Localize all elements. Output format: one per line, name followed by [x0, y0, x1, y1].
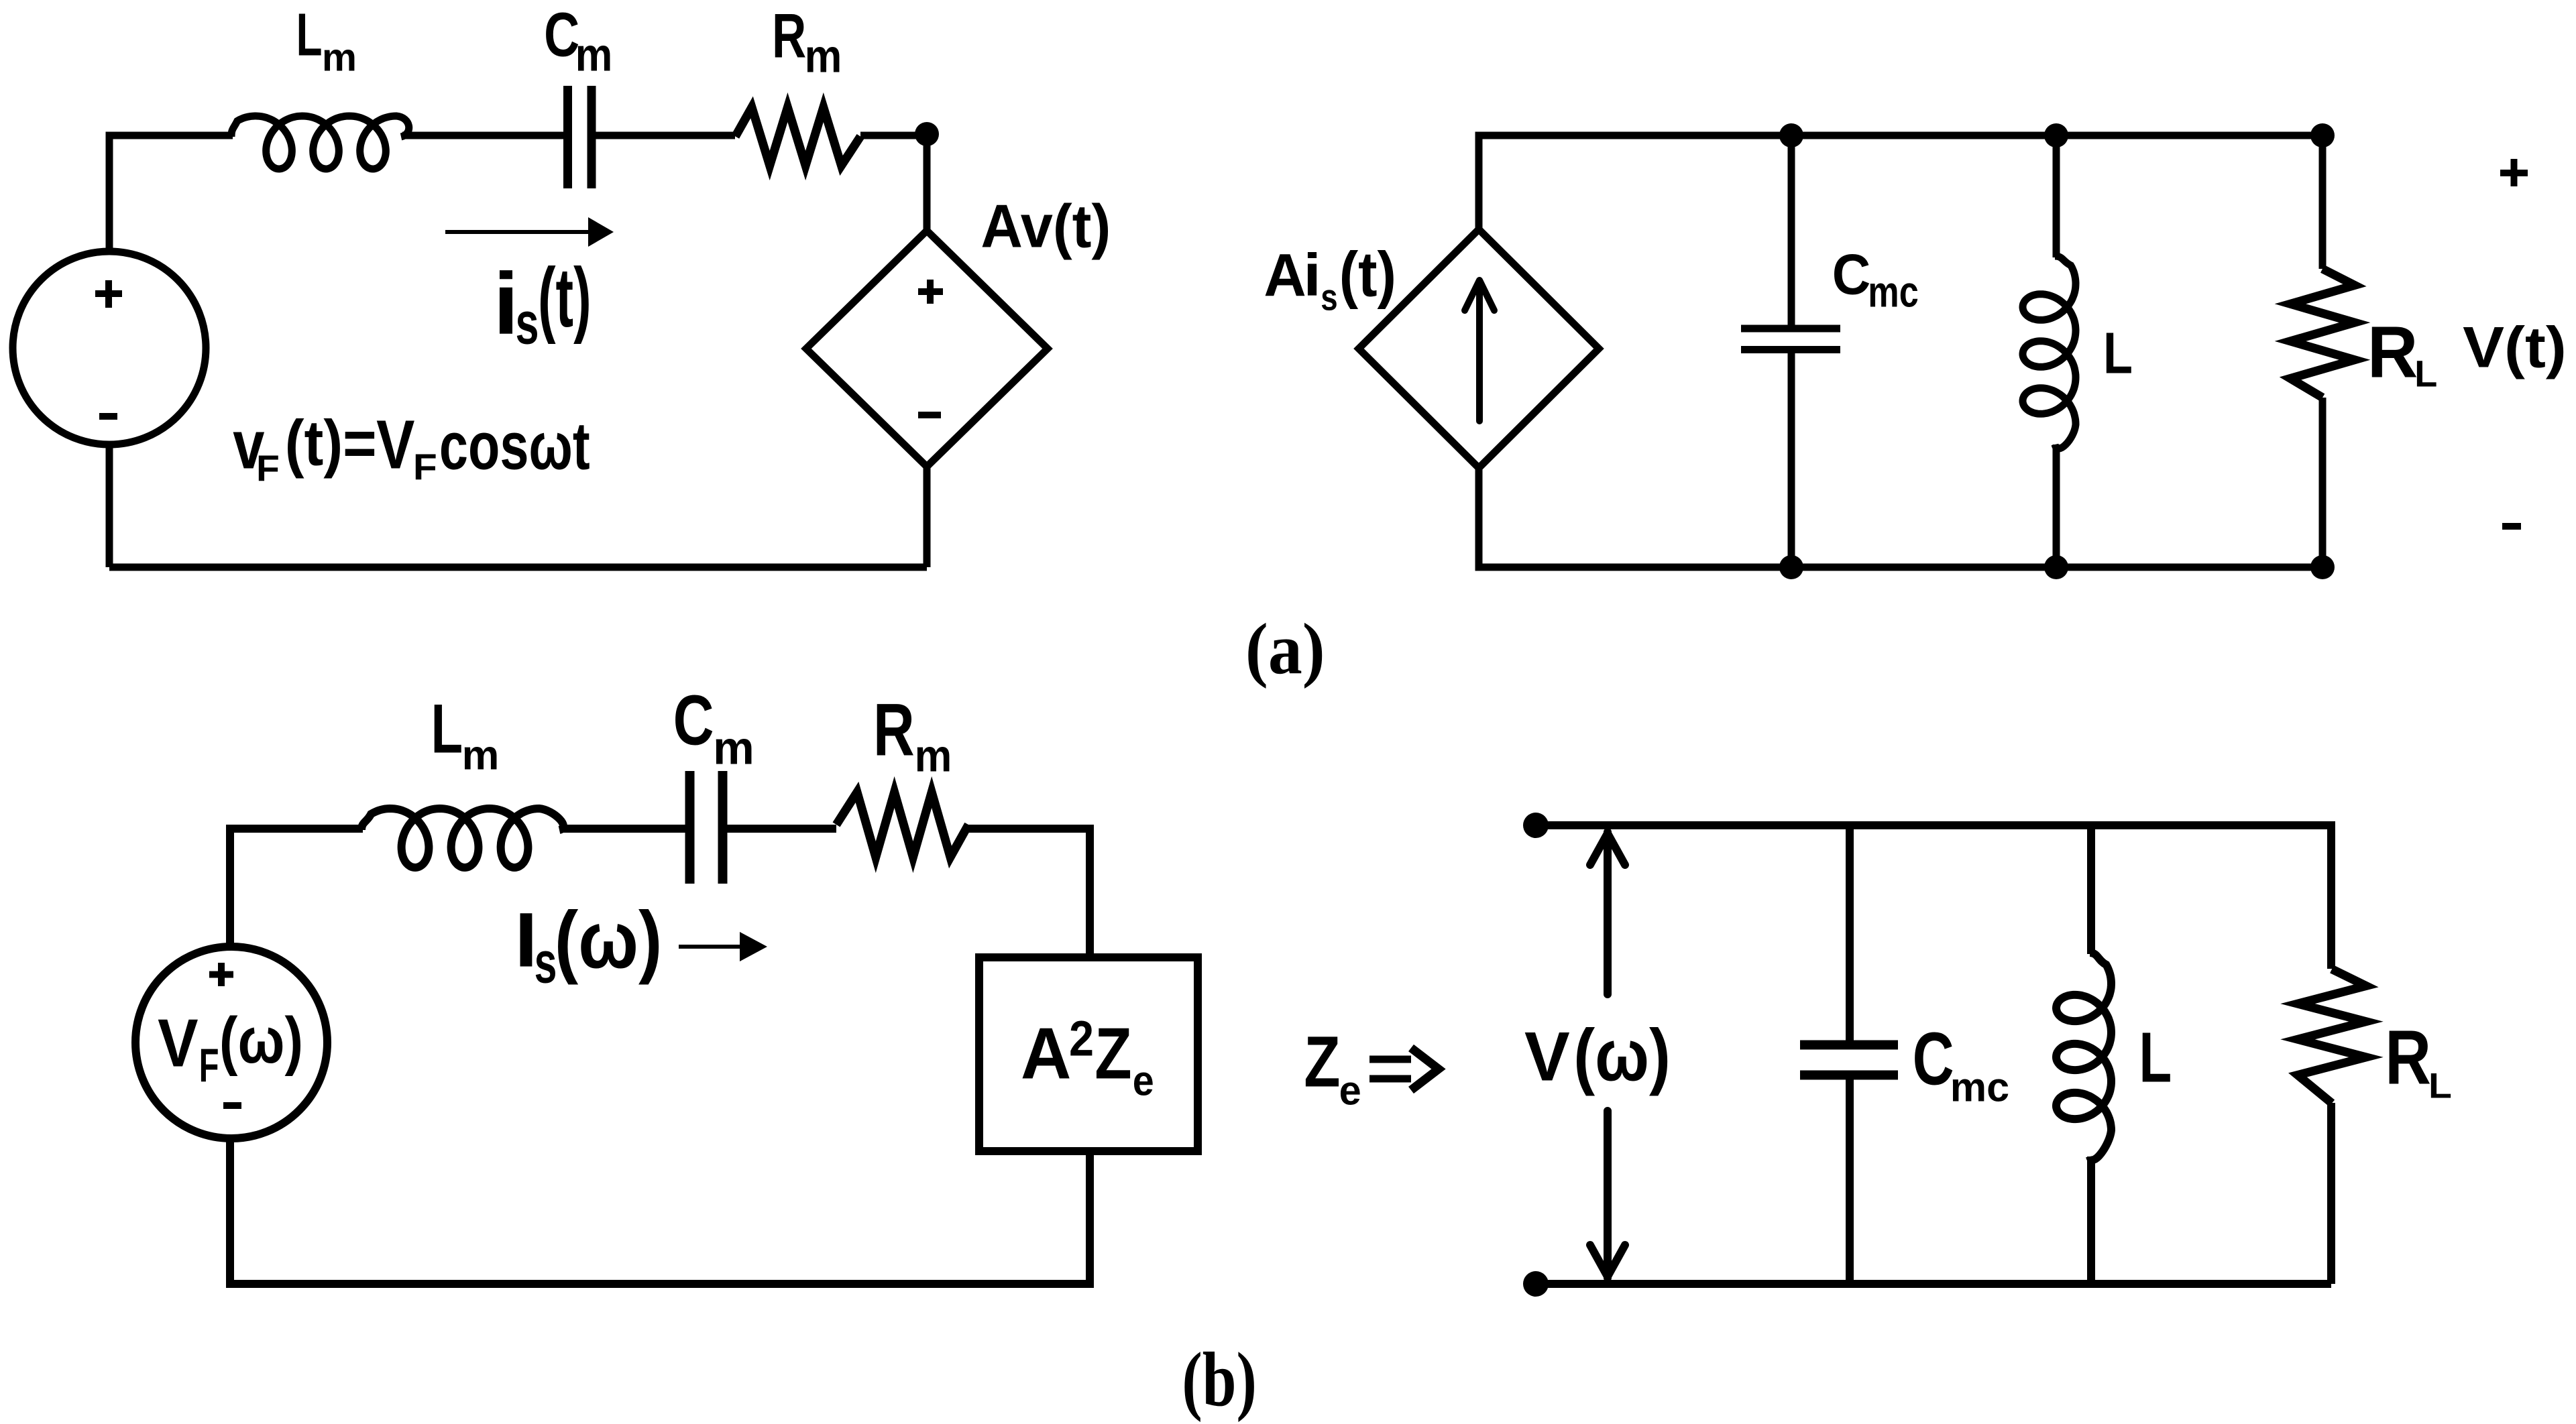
V(ω) double headed arrow [1604, 832, 1612, 1278]
wire: (b) left loop frame [230, 829, 1090, 1284]
Av(t) + sign [918, 280, 943, 304]
svg-text:V: V [376, 406, 414, 483]
svg-text:(ω): (ω) [555, 895, 663, 986]
Av(t) - sign [918, 412, 941, 418]
label VF(ω) [158, 1004, 303, 1091]
svg-text:m: m [915, 730, 952, 781]
svg-text:(ω): (ω) [1573, 1014, 1671, 1096]
svg-text:m: m [462, 731, 500, 778]
node bottom of L branch [2044, 555, 2068, 579]
label V(ω) [1524, 1014, 1671, 1096]
svg-text:L: L [296, 1, 323, 68]
capacitor Cm (a) [568, 86, 592, 188]
svg-text:m: m [575, 29, 613, 81]
V(t) + sign [2500, 159, 2528, 186]
wire: Lm to Cm (a) [402, 132, 563, 139]
svg-text:s: s [516, 290, 539, 357]
svg-text:L: L [2414, 352, 2437, 394]
label Lm (a) [296, 1, 357, 80]
svg-text:V: V [158, 1006, 198, 1081]
wire: (a) right top rail [1479, 135, 2322, 269]
VF - sign [223, 1102, 241, 1109]
current arrow Is(ω) [679, 945, 748, 949]
wire: Rm to node (a) [860, 132, 927, 139]
label L (a) [2103, 320, 2133, 385]
svg-text:Z: Z [1095, 1013, 1131, 1095]
svg-text:(t): (t) [1339, 239, 1396, 310]
label Ze [1304, 1022, 1361, 1114]
svg-text:cosωt: cosωt [439, 408, 590, 483]
label Cmc (a) [1832, 242, 1919, 316]
svg-text:i: i [1303, 241, 1321, 308]
svg-text:C: C [544, 0, 579, 69]
V(t) - sign [2502, 523, 2521, 530]
current arrow is(t) [445, 230, 592, 234]
svg-text:L: L [431, 689, 463, 768]
label vF(t)=VFcosωt [233, 406, 590, 489]
label V(t) (a) [2463, 315, 2567, 379]
voltage source vF circle [13, 251, 206, 444]
resistor Rm (a) [736, 107, 861, 166]
svg-text:Z: Z [1304, 1022, 1340, 1102]
wire: source to top rail (a) left [109, 135, 233, 249]
node junction dot (a) [915, 122, 939, 146]
svg-text:(t)=: (t)= [285, 407, 377, 479]
inductor L (b) branch wires [2087, 825, 2095, 1284]
svg-text:L: L [2139, 1018, 2172, 1097]
svg-text:s: s [535, 930, 557, 995]
svg-text:s: s [1321, 276, 1337, 318]
capacitor Cm (b) [690, 771, 723, 884]
svg-text:(ω): (ω) [219, 1004, 303, 1077]
label RL (a) [2367, 311, 2438, 395]
wire: (a) bottom rail [109, 564, 927, 571]
label Av(t) [981, 191, 1111, 260]
dependent voltage source Av(t) diamond [806, 231, 1048, 467]
svg-text:(t): (t) [538, 251, 592, 345]
wire: Cm to Rm (b) [727, 825, 836, 833]
node bottom of Cmc branch [1779, 555, 1803, 579]
svg-text:C: C [1832, 242, 1871, 306]
node top of L branch [2044, 123, 2068, 147]
capacitor Cmc (b) branch wires [1846, 825, 1854, 1284]
VF + sign [209, 963, 233, 986]
svg-text:A: A [1264, 241, 1306, 308]
vF source + sign [95, 280, 122, 308]
label Cm (b) [673, 680, 754, 774]
terminal dot top left (b) right [1523, 813, 1549, 838]
wire: (b) right top rail [1536, 825, 2331, 969]
capacitor Cmc (a) plates [1741, 329, 1840, 350]
impedance box A2Ze [979, 957, 1198, 1151]
wire: Lm to Cm (b) [561, 825, 685, 833]
svg-text:A: A [1021, 1012, 1072, 1094]
terminal dot bottom left (b) right [1523, 1271, 1549, 1297]
svg-text:m: m [805, 30, 842, 82]
inductor Lm (a) [231, 116, 409, 169]
dependent current source Ais(t) diamond [1359, 229, 1599, 468]
label Rm (b) [873, 689, 952, 781]
svg-text:m: m [322, 36, 357, 79]
svg-text:e: e [1133, 1057, 1154, 1104]
wire: RL (b) bottom lead [2327, 1103, 2335, 1284]
svg-text:L: L [2428, 1065, 2452, 1106]
wire: diamond to bottom rail (a) [923, 465, 931, 567]
label (b) [1182, 1336, 1256, 1423]
svg-text:L: L [2103, 320, 2133, 385]
wire: (b) right bottom rail [1536, 1280, 2331, 1288]
svg-text:2: 2 [1069, 1010, 1094, 1066]
svg-text:V(t): V(t) [2463, 315, 2567, 379]
wire: node to diamond (a) [923, 134, 931, 232]
resistor RL (a) [2290, 269, 2355, 398]
inductor L (b) coil [2056, 953, 2111, 1160]
node top right corner [2310, 123, 2335, 147]
capacitor Cmc (a) branch wires [1788, 135, 1795, 567]
svg-text:R: R [873, 689, 915, 771]
inductor Lm (b) [361, 809, 563, 868]
svg-text:(a): (a) [1245, 609, 1325, 689]
svg-text:mc: mc [1868, 268, 1918, 316]
wire: Rm to box (b) [968, 829, 1090, 957]
label is(t) [493, 251, 591, 357]
label Lm (b) [431, 689, 500, 778]
svg-text:F: F [199, 1039, 219, 1091]
svg-text:C: C [673, 680, 714, 760]
svg-text:V: V [1524, 1017, 1570, 1095]
resistor RL (b) [2298, 969, 2366, 1104]
svg-text:F: F [413, 447, 437, 487]
double arrow Ze implies [1369, 1059, 1411, 1079]
svg-text:C: C [1913, 1018, 1954, 1101]
node bottom right corner [2310, 555, 2335, 579]
wire: source to bottom rail (a) left [106, 445, 113, 567]
label Is(ω) [514, 895, 662, 995]
svg-text:F: F [256, 449, 280, 489]
label Cm (a) [544, 0, 612, 81]
svg-text:mc: mc [1950, 1065, 2009, 1110]
svg-text:R: R [772, 1, 806, 71]
svg-text:m: m [713, 721, 754, 774]
label RL (b) [2385, 1015, 2452, 1106]
inductor L (a) coil [2023, 256, 2076, 449]
resistor Rm (b) [836, 792, 968, 857]
svg-text:e: e [1339, 1067, 1361, 1114]
label L (b) [2139, 1018, 2172, 1097]
wire: (a) right bottom rail [1479, 467, 2322, 567]
vF source - sign [99, 413, 117, 420]
capacitor Cmc (b) plates [1800, 1045, 1898, 1075]
wire: RL (a) bottom lead [2319, 398, 2327, 567]
inductor L (a) branch wires [2053, 135, 2060, 567]
label (a) [1245, 609, 1325, 689]
wire: Cm to Rm (a) [596, 132, 735, 139]
voltage source VF circle [135, 947, 327, 1138]
svg-text:R: R [2385, 1015, 2431, 1100]
svg-text:(b): (b) [1182, 1336, 1256, 1423]
svg-text:Av(t): Av(t) [981, 191, 1111, 260]
svg-text:R: R [2367, 311, 2418, 393]
label Rm (a) [772, 1, 842, 82]
node top of Cmc branch [1779, 123, 1803, 147]
label A2Ze [1021, 1010, 1154, 1104]
Ais(t) arrow [1476, 282, 1483, 421]
label Cmc (b) [1913, 1018, 2010, 1110]
label Ais(t) [1264, 239, 1396, 318]
